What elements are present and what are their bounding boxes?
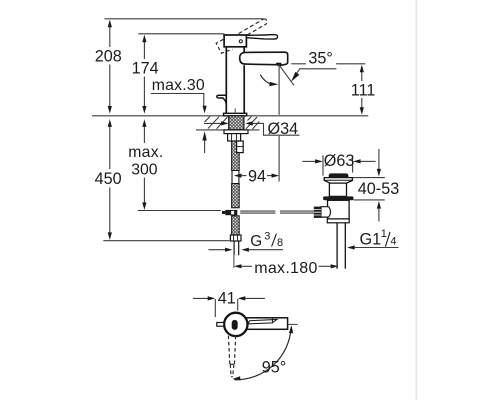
35deg leader with arrow bbox=[295, 69, 337, 77]
svg-text:300: 300 bbox=[131, 161, 158, 178]
base flange bbox=[224, 113, 247, 116]
faint background seam line bbox=[416, 0, 418, 400]
drain flange plate bbox=[324, 178, 352, 184]
centerline right of spout bbox=[288, 323, 298, 325]
lever seen from above bbox=[248, 320, 277, 324]
svg-text:174: 174 bbox=[132, 60, 159, 78]
Ø34 leader to label bbox=[252, 123, 300, 135]
lever handle bbox=[246, 35, 277, 40]
dashed lever (raised position) bbox=[239, 19, 268, 38]
deck hatch left bbox=[205, 117, 228, 129]
svg-text:max.: max. bbox=[128, 144, 163, 161]
rod double line to drain bbox=[240, 210, 314, 212]
35deg label line bbox=[291, 63, 306, 65]
lower extension line (seal) bbox=[354, 199, 385, 201]
208 dimension line upper bbox=[108, 20, 112, 28]
drain upper body bbox=[329, 183, 346, 196]
drain hex nut bbox=[327, 219, 349, 223]
svg-text:450: 450 bbox=[95, 170, 122, 188]
95deg arc bbox=[234, 328, 291, 380]
deck hatch right bbox=[246, 116, 259, 129]
svg-text:3: 3 bbox=[264, 231, 270, 243]
temperature dot on cap bbox=[239, 40, 242, 43]
svg-text:1: 1 bbox=[381, 228, 387, 240]
supply hose braided lower bbox=[232, 216, 240, 235]
max.30 lower arrow bbox=[202, 131, 206, 140]
svg-text:Ø63: Ø63 bbox=[324, 152, 355, 170]
supply hose braided upper bbox=[232, 141, 240, 171]
450 bottom reference line bbox=[103, 240, 229, 242]
dashed lever rotated 95deg bbox=[228, 336, 235, 377]
supply hose braided middle bbox=[232, 184, 240, 208]
drain side port bbox=[321, 207, 331, 217]
svg-text:G1: G1 bbox=[360, 230, 382, 248]
208 top extension line bbox=[105, 18, 264, 20]
Ø63 extension lines bbox=[322, 155, 324, 175]
body bbox=[226, 47, 244, 114]
rod junction fitting bbox=[222, 211, 225, 214]
spout bbox=[240, 52, 288, 65]
dashed cap (raised position) bbox=[216, 37, 232, 54]
body circle bbox=[224, 313, 247, 336]
drain tailpipe G1 1/4 bbox=[337, 223, 345, 269]
upper extension line (flange underside) bbox=[353, 177, 385, 179]
mounting nut bbox=[228, 134, 241, 141]
svg-text:94: 94 bbox=[248, 167, 266, 185]
208 dimension line lower bbox=[109, 65, 111, 108]
rod stub inside body bbox=[234, 108, 236, 113]
svg-text:max.180: max.180 bbox=[254, 260, 317, 277]
flow curved arrow bbox=[260, 75, 272, 85]
lever back stub bbox=[217, 323, 224, 327]
max.30 underline leader bbox=[151, 94, 204, 107]
svg-text:8: 8 bbox=[277, 237, 283, 249]
drain rubber seal bbox=[323, 196, 353, 200]
spray direction line 35deg bbox=[279, 64, 294, 85]
svg-text:4: 4 bbox=[390, 235, 396, 247]
svg-text:G: G bbox=[250, 233, 262, 250]
drain dome knob bbox=[329, 173, 349, 177]
threaded stud bbox=[237, 141, 244, 153]
threaded shank through deck bbox=[229, 116, 244, 130]
svg-text:41: 41 bbox=[218, 290, 236, 308]
water stream line upper bbox=[278, 64, 280, 115]
svg-text:Ø34: Ø34 bbox=[268, 120, 299, 138]
41 extension lines bbox=[214, 299, 216, 317]
svg-text:max.30: max.30 bbox=[152, 77, 205, 94]
hose end nut bbox=[230, 235, 241, 241]
washer under deck bbox=[224, 130, 248, 134]
174 top extension line bbox=[138, 33, 224, 35]
deck bottom line bbox=[196, 129, 260, 131]
water stream line lower bbox=[278, 136, 280, 182]
svg-text:40-53: 40-53 bbox=[358, 180, 399, 198]
svg-text:111: 111 bbox=[351, 81, 376, 99]
extension below tube bbox=[233, 255, 235, 267]
rod adjustment knob (knurled) bbox=[314, 207, 321, 218]
aerator tip bbox=[277, 63, 281, 66]
max.300 bottom reference: pop-up rod extension bbox=[138, 210, 221, 212]
svg-text:208: 208 bbox=[95, 47, 122, 65]
cartridge cap bbox=[224, 35, 246, 47]
drain lower body bbox=[328, 200, 350, 219]
hose plain segment bbox=[232, 171, 239, 184]
hose connector tube G3/8 bbox=[234, 241, 239, 255]
deck top line bbox=[92, 115, 368, 117]
lever slot bbox=[232, 320, 238, 330]
svg-text:35°: 35° bbox=[308, 49, 332, 67]
spout (top view) bbox=[246, 318, 288, 330]
pop-up rod knob on body bbox=[217, 95, 227, 104]
svg-text:95°: 95° bbox=[262, 359, 286, 377]
